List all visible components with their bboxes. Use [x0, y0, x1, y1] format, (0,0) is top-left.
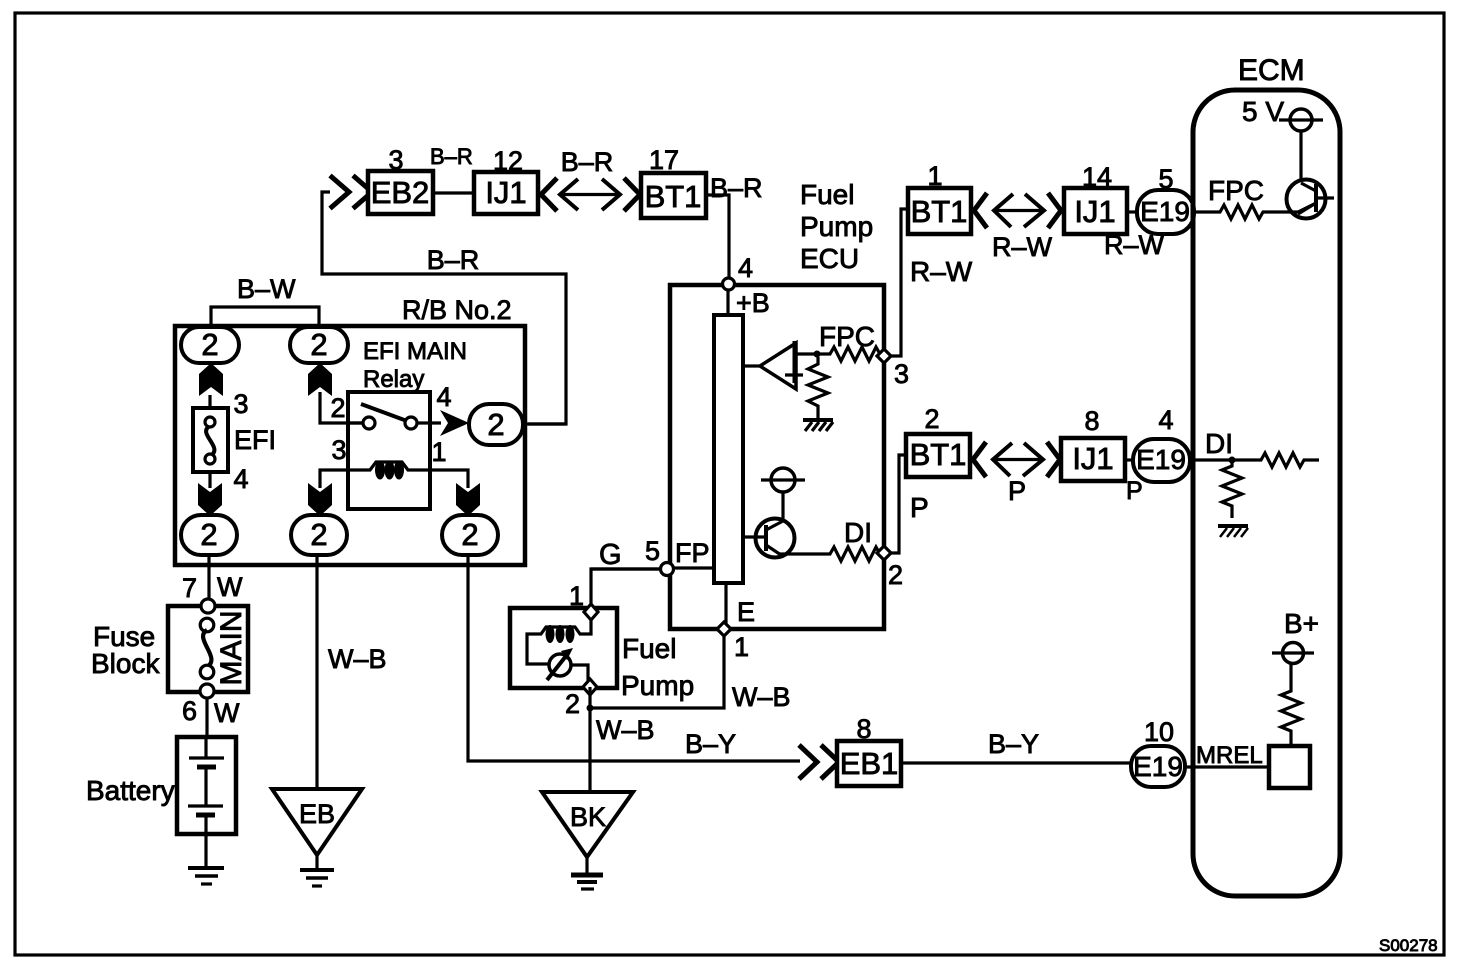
svg-text:B–R: B–R	[430, 144, 473, 169]
svg-text:B–Y: B–Y	[685, 729, 736, 759]
svg-text:+B: +B	[736, 288, 770, 318]
svg-text:BT1: BT1	[645, 179, 702, 214]
svg-text:Fuel: Fuel	[622, 633, 676, 664]
svg-text:W–B: W–B	[328, 644, 387, 674]
svg-text:E19: E19	[1133, 751, 1183, 782]
svg-text:B–Y: B–Y	[988, 729, 1039, 759]
svg-text:2: 2	[565, 689, 580, 719]
svg-text:R/B No.2: R/B No.2	[402, 295, 512, 325]
svg-text:EB: EB	[299, 799, 335, 829]
svg-text:FP: FP	[675, 538, 710, 568]
svg-text:1: 1	[431, 437, 446, 467]
svg-text:5 V: 5 V	[1242, 96, 1284, 127]
svg-text:2: 2	[310, 517, 327, 552]
svg-text:E19: E19	[1140, 196, 1190, 227]
svg-text:EFI: EFI	[234, 425, 276, 455]
svg-text:1: 1	[927, 161, 942, 191]
svg-text:Pump: Pump	[621, 670, 694, 701]
svg-text:2: 2	[461, 517, 478, 552]
svg-text:B–R: B–R	[427, 245, 480, 275]
svg-text:7: 7	[182, 573, 197, 603]
svg-text:8: 8	[1084, 406, 1099, 436]
svg-text:BT1: BT1	[911, 194, 968, 229]
svg-text:EFI MAIN: EFI MAIN	[363, 338, 467, 365]
svg-text:2: 2	[201, 327, 218, 362]
svg-text:IJ1: IJ1	[485, 175, 526, 210]
svg-text:ECU: ECU	[800, 243, 859, 274]
svg-text:P: P	[1126, 477, 1143, 505]
svg-text:2: 2	[487, 407, 504, 442]
svg-text:Fuel: Fuel	[800, 179, 854, 210]
svg-text:W–B: W–B	[596, 715, 655, 745]
svg-text:EB2: EB2	[371, 175, 430, 210]
svg-text:B–W: B–W	[237, 274, 296, 304]
svg-text:MREL: MREL	[1196, 742, 1263, 769]
svg-text:4: 4	[738, 253, 753, 283]
svg-text:5: 5	[645, 536, 660, 566]
svg-text:W–B: W–B	[732, 682, 791, 712]
svg-text:Block: Block	[91, 648, 160, 679]
svg-text:EB1: EB1	[840, 746, 899, 781]
svg-text:G: G	[599, 539, 622, 571]
svg-text:2: 2	[330, 393, 345, 423]
svg-text:R–W: R–W	[910, 256, 973, 287]
svg-text:1: 1	[569, 581, 584, 611]
svg-text:B–R: B–R	[561, 147, 614, 177]
svg-text:3: 3	[894, 359, 909, 389]
svg-text:Pump: Pump	[800, 211, 873, 242]
svg-text:BT1: BT1	[910, 437, 967, 472]
svg-text:4: 4	[436, 382, 451, 412]
svg-text:3: 3	[388, 145, 403, 175]
svg-text:6: 6	[182, 696, 197, 726]
svg-text:2: 2	[888, 560, 903, 590]
svg-text:1: 1	[734, 632, 749, 662]
svg-text:P: P	[910, 492, 929, 523]
svg-text:10: 10	[1144, 717, 1174, 747]
svg-text:P: P	[1008, 476, 1026, 506]
svg-text:IJ1: IJ1	[1074, 194, 1115, 229]
svg-text:B–R: B–R	[710, 173, 763, 203]
svg-text:W: W	[214, 698, 240, 728]
svg-text:W: W	[217, 572, 243, 602]
svg-text:8: 8	[856, 714, 871, 744]
svg-text:S00278: S00278	[1379, 936, 1438, 955]
svg-text:2: 2	[924, 404, 939, 434]
svg-text:12: 12	[493, 146, 523, 176]
svg-text:BK: BK	[570, 802, 606, 832]
svg-text:IJ1: IJ1	[1072, 441, 1113, 476]
svg-text:R–W: R–W	[992, 232, 1053, 262]
svg-text:5: 5	[1158, 164, 1173, 194]
svg-text:2: 2	[310, 327, 327, 362]
svg-text:E: E	[737, 597, 755, 627]
svg-text:B+: B+	[1284, 608, 1319, 639]
svg-text:17: 17	[649, 145, 679, 175]
svg-text:FPC: FPC	[1208, 175, 1264, 206]
svg-text:ECM: ECM	[1238, 54, 1305, 87]
svg-text:DI: DI	[844, 517, 872, 548]
svg-text:Relay: Relay	[363, 366, 424, 393]
svg-text:14: 14	[1082, 162, 1112, 192]
svg-text:4: 4	[1158, 405, 1173, 435]
svg-text:DI: DI	[1205, 428, 1233, 459]
svg-text:2: 2	[200, 517, 217, 552]
svg-text:4: 4	[233, 464, 248, 494]
svg-text:Battery: Battery	[86, 775, 175, 806]
svg-text:3: 3	[331, 435, 346, 465]
svg-text:FPC: FPC	[819, 321, 875, 352]
svg-text:3: 3	[233, 389, 248, 419]
svg-text:MAIN: MAIN	[215, 611, 248, 686]
svg-text:E19: E19	[1136, 444, 1186, 475]
